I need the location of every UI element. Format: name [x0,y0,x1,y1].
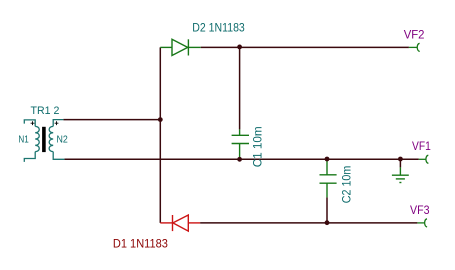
svg-text:VF3: VF3 [410,203,430,217]
wire C2 to bottom rail [326,197,328,223]
junction node middle rail / C1 [237,157,242,162]
svg-text:N1: N1 [18,133,29,145]
polarity mark N1 [31,121,35,125]
transformer TR1 [24,120,64,162]
transformer core [42,127,46,152]
ground [392,167,409,182]
diode D1 (selected, red) [160,215,200,231]
junction node at bus and secondary top [158,117,163,122]
wire ground stub below VF1 node [399,159,401,167]
svg-text:C1 10m: C1 10m [252,126,264,167]
capacitor C1 [232,129,249,159]
winding N2 bottom lead [53,152,64,160]
svg-text:C2 10m: C2 10m [341,166,353,204]
wire left vertical bus x=160 [159,47,161,223]
svg-text:TR1 2: TR1 2 [31,105,60,117]
winding N1 top lead [24,120,35,127]
winding N1 coil [35,126,39,151]
wire top rail from D2 cathode lead to VF2 [201,46,409,48]
wire middle rail y=159 [64,158,418,160]
svg-text:D1 1N1183: D1 1N1183 [113,237,168,251]
winding N2 coil [49,126,53,151]
svg-text:VF1: VF1 [412,139,431,153]
junction node bottom rail / C2 [325,220,330,225]
winding N1 bottom lead [24,152,35,162]
terminal VF3 [417,219,427,227]
wire transformer secondary top to vertical bus [63,119,160,121]
svg-text:VF2: VF2 [404,28,425,42]
capacitor C2 [320,159,337,197]
svg-text:D2 1N1183: D2 1N1183 [192,20,245,34]
polarity mark N2 [55,121,59,125]
terminal VF1 [419,155,429,163]
junction node middle rail / ground / VF1 [398,157,403,162]
junction node middle rail / C2 [325,157,330,162]
junction node top rail / C1 [237,45,242,50]
wire bottom rail from D1 anode lead to VF3 [200,222,417,224]
winding N2 top lead [53,120,63,127]
svg-text:N2: N2 [57,133,68,145]
diode D2 [160,39,200,55]
wire C1 drop from top rail [239,47,241,129]
terminal VF2 [409,43,420,51]
